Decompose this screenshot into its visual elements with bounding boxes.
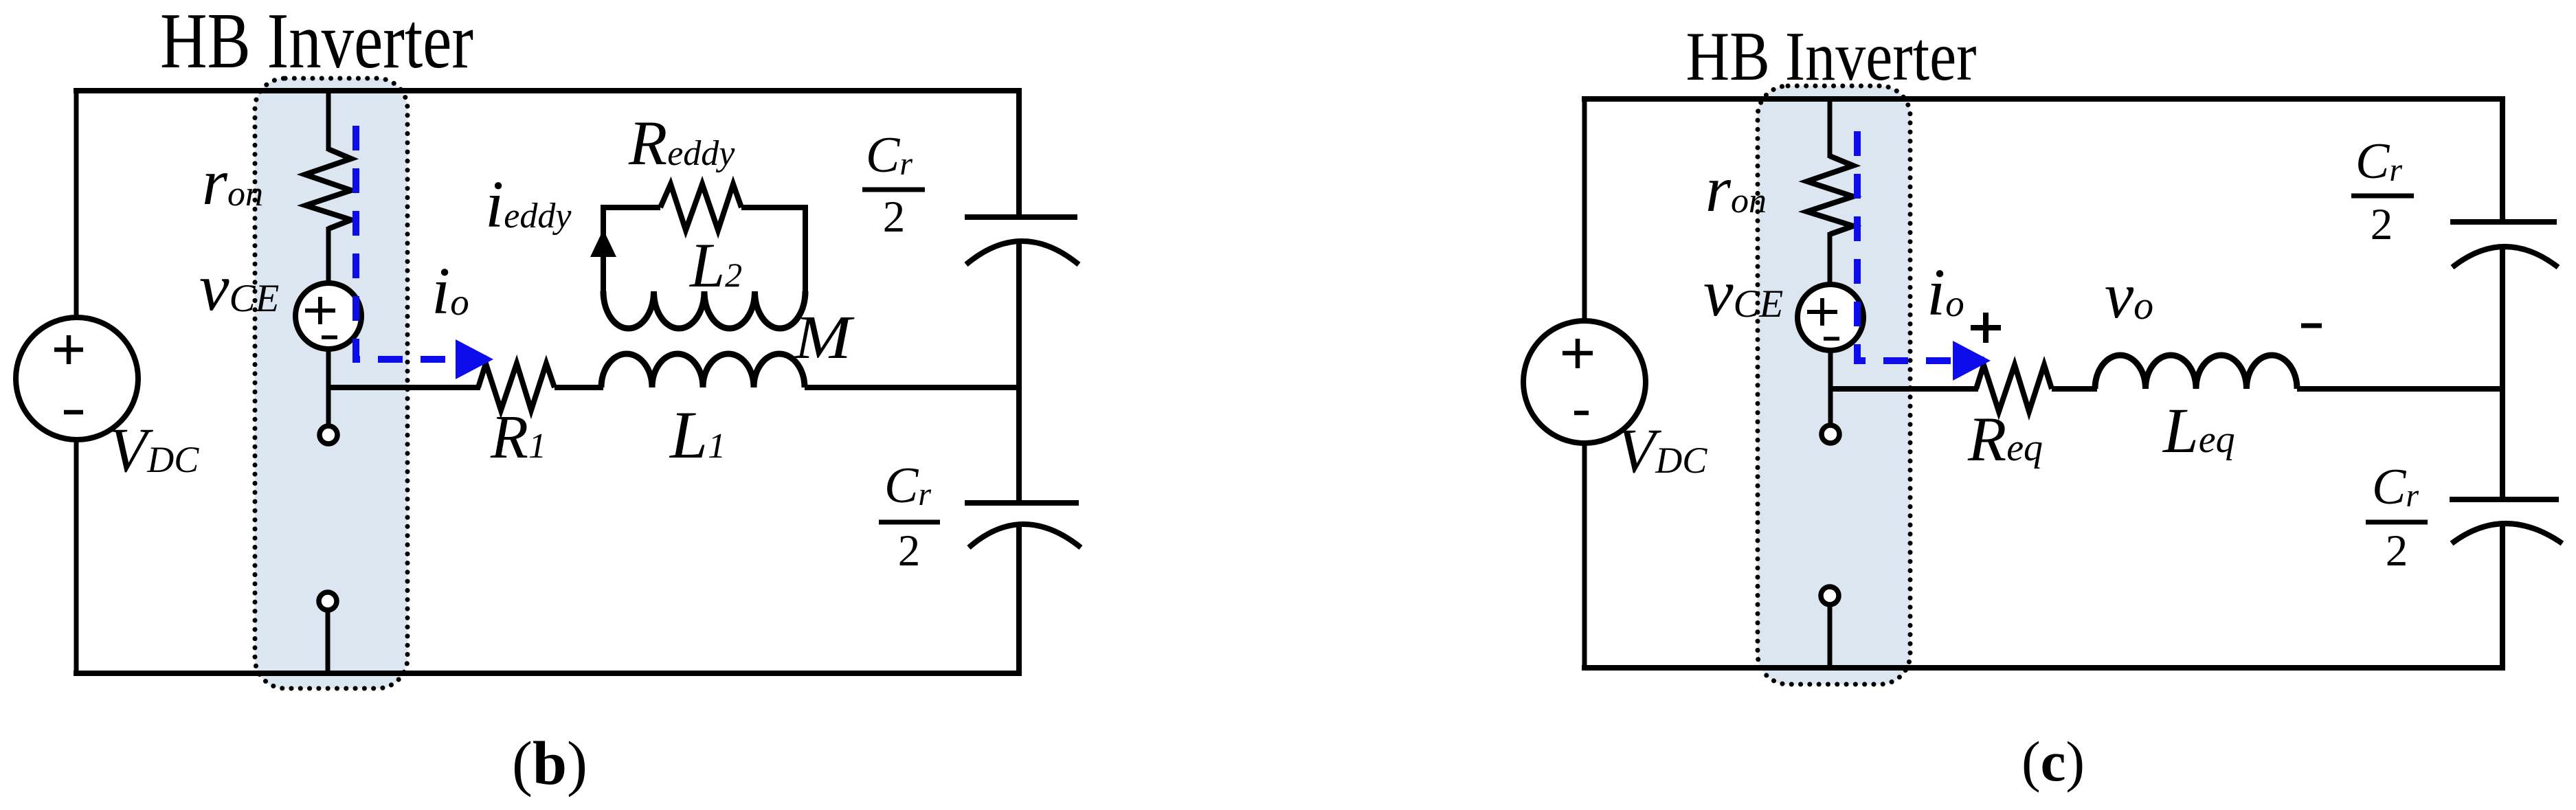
- label v_CE (c): [1703, 256, 1783, 330]
- svg-text:2: 2: [883, 192, 906, 242]
- wire right side top (c): [2500, 96, 2505, 221]
- label i_eddy (b): [485, 168, 572, 242]
- label L1 (b): [669, 398, 726, 473]
- svg-text:(c): (c): [2021, 730, 2085, 793]
- wire right side middle (b): [1016, 242, 1022, 501]
- capacitor Cr/2 top (c): [2450, 222, 2558, 267]
- resistor R_eddy (b): [660, 184, 741, 230]
- label i_o (c): [1927, 256, 1964, 330]
- wire right side bottom (b): [1016, 524, 1022, 676]
- inductor L1 (b): [601, 354, 805, 387]
- wire L1 to right side (b): [805, 385, 1022, 390]
- wire r_on to v_CE (c): [1828, 232, 1833, 286]
- wire R1 to L1 (b): [555, 385, 603, 390]
- wire right side middle (c): [2500, 247, 2505, 498]
- wire left side upper (b): [74, 88, 79, 318]
- wire node stub down (c): [1828, 389, 1833, 425]
- resistor R1 (b): [478, 363, 555, 410]
- wire top rail (c): [1582, 96, 2505, 102]
- resistor r_on (c): [1807, 156, 1853, 234]
- label r_on (b): [202, 146, 263, 218]
- voltage source VDC (c): [1523, 321, 1646, 443]
- terminal node lower (b): [319, 592, 337, 610]
- current path i_o dashed (b): [356, 121, 456, 359]
- label L2 (b): [688, 230, 742, 300]
- svg-text:HB Inverter: HB Inverter: [1686, 18, 1977, 95]
- wire right side bottom (c): [2500, 524, 2505, 671]
- capacitor Cr/2 bottom (c): [2450, 499, 2562, 543]
- arrow i_o (b): [456, 339, 493, 379]
- wire r_on top lead (b): [326, 90, 331, 151]
- label M (b): [793, 304, 855, 372]
- resistor R_eq (c): [1976, 365, 2052, 412]
- label VDC (c): [1617, 416, 1707, 486]
- resistor r_on (b): [305, 149, 351, 229]
- source v_CE (c): [1797, 284, 1863, 350]
- label L_eq (c): [2162, 396, 2235, 466]
- svg-text:HB Inverter: HB Inverter: [160, 0, 473, 85]
- arrow i_eddy (b): [590, 229, 616, 257]
- wire lower terminal to bottom rail (b): [326, 611, 331, 673]
- wire r_on top lead (c): [1828, 99, 1833, 158]
- source v_CE (b): [295, 283, 361, 349]
- wire node stub down (b): [326, 387, 331, 425]
- wire bottom rail (c): [1582, 665, 2505, 671]
- eddy loop left wire (b): [603, 207, 660, 291]
- label plus of v_o (c): [1971, 313, 2001, 343]
- eddy loop right wire (b): [741, 207, 805, 291]
- svg-text:2: 2: [898, 526, 921, 576]
- terminal node upper (c): [1822, 425, 1839, 443]
- wire right side top (b): [1016, 88, 1022, 216]
- wire node to R1 (b): [328, 385, 480, 390]
- wire R_eq to L_eq (c): [2052, 386, 2097, 392]
- label HB Inverter (c): [1686, 18, 1977, 95]
- wire node to R_eq (c): [1830, 386, 1978, 392]
- inductor L_eq (c): [2095, 355, 2297, 389]
- wire left side lower (b): [74, 439, 79, 676]
- terminal node upper (b): [320, 426, 337, 444]
- label Cr/2 top (b): [862, 127, 925, 242]
- current path i_o dashed (c): [1857, 128, 1953, 361]
- wire r_on to v_CE (b): [326, 227, 331, 284]
- inductor L2 (b): [603, 291, 805, 328]
- wire top rail (b): [74, 88, 1022, 93]
- label HB Inverter (b): [160, 0, 473, 85]
- svg-text:2: 2: [2371, 200, 2393, 249]
- label Cr/2 bottom (c): [2366, 459, 2428, 576]
- wire v_CE to node (c): [1828, 350, 1833, 392]
- wire left side upper (c): [1582, 96, 1587, 322]
- label Cr/2 bottom (b): [879, 458, 940, 576]
- svg-text:2: 2: [2386, 526, 2408, 576]
- capacitor Cr/2 top (b): [965, 217, 1079, 265]
- label R1 (b): [490, 403, 546, 471]
- capacitor Cr/2 bottom (b): [965, 503, 1081, 548]
- label minus of v_o (c): [2301, 324, 2322, 328]
- label Cr/2 top (c): [2351, 133, 2414, 249]
- label R_eq (c): [1967, 404, 2043, 474]
- wire bottom rail (b): [74, 671, 1022, 676]
- HB inverter shaded region (b): [255, 78, 407, 688]
- arrow i_o (c): [1953, 341, 1991, 381]
- svg-text:(b): (b): [512, 730, 587, 798]
- HB inverter shaded region (c): [1758, 86, 1910, 684]
- label (c): [2021, 730, 2085, 793]
- label VDC (b): [109, 415, 199, 485]
- wire v_CE to node (b): [326, 349, 331, 390]
- voltage source VDC (b): [16, 317, 138, 440]
- label (b): [512, 730, 587, 798]
- wire lower terminal to bottom rail (c): [1828, 605, 1833, 670]
- wire left side lower (c): [1582, 442, 1587, 671]
- svg-text:M: M: [793, 304, 855, 372]
- label v_CE (b): [199, 251, 279, 325]
- terminal node lower (c): [1821, 587, 1839, 605]
- label r_on (c): [1705, 153, 1767, 225]
- label v_o (c): [2105, 259, 2153, 332]
- label i_o (b): [432, 254, 469, 328]
- label R_eddy (b): [628, 108, 735, 178]
- wire L_eq to right side (c): [2297, 386, 2505, 392]
